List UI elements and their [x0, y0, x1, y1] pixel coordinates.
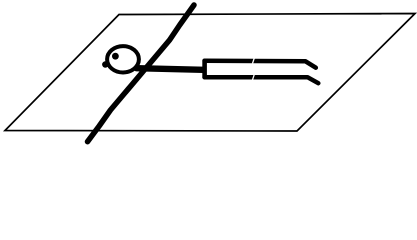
body (thick horizontal line) — [137, 68, 204, 70]
leg: top tine — [205, 61, 316, 68]
legs: left closure of fork — [202, 61, 207, 77]
head (circle) — [107, 46, 139, 72]
plane (parallelogram) — [5, 14, 415, 132]
leg: bottom tine — [205, 77, 319, 83]
notch in top tine — [253, 58, 255, 63]
notch in bottom tine — [253, 74, 255, 79]
eye (dot) — [112, 53, 119, 60]
line through plane (thick diagonal) — [88, 5, 195, 142]
nose (bump on left of head) — [102, 61, 108, 67]
